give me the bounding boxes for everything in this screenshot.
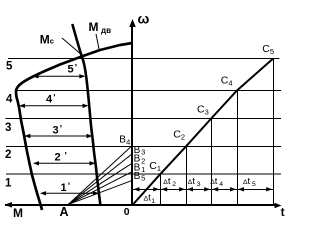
torque arrow 3'	[24, 134, 92, 138]
svg-text:M: M	[13, 206, 23, 218]
level line 4	[15, 90, 281, 92]
level line 5	[8, 58, 280, 60]
M-t axis	[5, 202, 282, 208]
svg-text:0: 0	[124, 206, 130, 218]
motor curve M_dv	[16, 43, 133, 210]
omega axis	[129, 19, 135, 206]
time grid vertical t5	[273, 58, 275, 206]
svg-text:A: A	[60, 205, 69, 218]
ray A-B1	[68, 172, 133, 205]
torque arrow 4'	[19, 104, 89, 108]
svg-text:M: M	[89, 20, 99, 34]
svg-text:2: 2	[5, 149, 11, 161]
svg-text:дв: дв	[101, 26, 111, 35]
ray A-B3	[68, 154, 133, 205]
time grid vertical t4	[237, 90, 239, 206]
dt5 arrowheads	[238, 187, 244, 191]
M_dv leader	[96, 34, 99, 49]
svg-text:B5: B5	[134, 171, 146, 183]
dt2 arrowheads	[161, 187, 167, 191]
torque arrow 2'	[33, 161, 96, 165]
dt1 arrowheads	[134, 187, 140, 191]
torque arrow 1'	[40, 191, 99, 195]
M_c leader	[62, 38, 83, 56]
dt3 arrowheads	[187, 187, 193, 191]
load line M_c	[72, 24, 100, 206]
svg-text:3: 3	[5, 122, 11, 134]
dt interval arrow row	[133, 188, 274, 190]
dt4 arrowheads	[212, 187, 218, 191]
svg-text:4: 4	[6, 94, 13, 106]
time grid vertical t3	[211, 119, 213, 206]
ray A-B4	[68, 145, 133, 204]
level line 2	[6, 145, 281, 147]
omega(t) startup curve	[133, 59, 274, 206]
time grid vertical t2	[186, 146, 188, 205]
svg-text:ω: ω	[138, 11, 150, 27]
svg-text:1: 1	[5, 178, 12, 190]
svg-text:5: 5	[6, 61, 13, 73]
level line 1	[6, 173, 281, 175]
svg-text:t: t	[281, 205, 285, 218]
svg-text:M: M	[40, 32, 50, 46]
svg-text:c: c	[50, 36, 54, 45]
ray A-B5	[68, 180, 133, 204]
time grid vertical t1	[160, 174, 162, 205]
ray A-B2	[68, 163, 133, 205]
torque arrow 5'	[33, 74, 86, 78]
level line 3	[6, 118, 282, 120]
